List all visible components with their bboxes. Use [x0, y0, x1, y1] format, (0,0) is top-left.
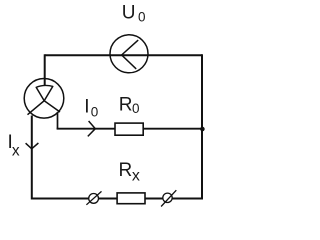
svg-text:x: x — [12, 142, 20, 159]
junction node dot — [200, 127, 205, 132]
resistor R0 — [115, 123, 143, 135]
svg-text:x: x — [132, 167, 140, 184]
svg-text:I: I — [84, 96, 89, 117]
wire left vertical — [31, 116, 33, 200]
svg-text:0: 0 — [138, 10, 146, 25]
wire top-left vertical into lamp — [44, 54, 46, 85]
wire right vertical — [201, 54, 203, 199]
resistor Rx — [117, 193, 145, 204]
svg-text:0: 0 — [91, 104, 99, 119]
svg-text:0: 0 — [132, 101, 140, 116]
svg-text:R: R — [119, 160, 133, 181]
source arrow lower arm — [122, 55, 137, 69]
terminal right (crossed circle) — [161, 190, 176, 206]
terminal left (crossed circle) — [86, 191, 101, 204]
wire I0 horizontal — [57, 128, 202, 130]
lamp X top connecting arc — [36, 85, 53, 87]
lamp X line 1 — [36, 87, 60, 112]
svg-text:R: R — [119, 95, 133, 116]
source arrow upper arm — [122, 40, 139, 55]
svg-text:U: U — [122, 3, 136, 24]
source U0 circle — [110, 35, 148, 73]
lamp X line 2 — [28, 86, 54, 115]
wire bottom horizontal — [32, 198, 202, 200]
wire top horizontal — [45, 54, 202, 56]
arrow I0 chevron — [88, 121, 96, 136]
lamp/galvanometer circle — [24, 79, 64, 119]
arrow Ix chevron — [26, 143, 39, 149]
wire lamp right stub — [57, 112, 59, 129]
